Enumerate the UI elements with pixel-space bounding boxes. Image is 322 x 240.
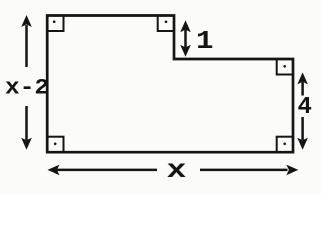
svg-text:1: 1 [196,27,213,56]
svg-text:x: x [167,157,187,185]
svg-text:x-2: x-2 [5,75,49,101]
svg-text:4: 4 [298,94,312,121]
